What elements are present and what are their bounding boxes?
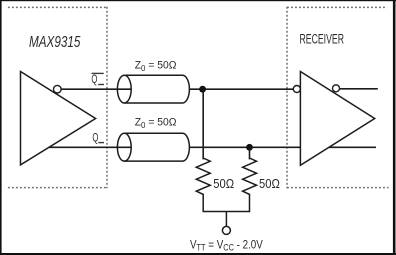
label Qbar (top output) bbox=[91, 72, 104, 86]
svg-text:50Ω: 50Ω bbox=[259, 177, 280, 191]
transmission line T2 (coax cylinder, bottom) bbox=[117, 133, 189, 161]
RECEIVER dashed box (open on right side) bbox=[287, 7, 389, 188]
svg-text:50Ω: 50Ω bbox=[213, 177, 234, 191]
border frame bottom bbox=[0, 253, 396, 255]
resistor R1 (zigzag) bbox=[196, 158, 210, 212]
svg-text:Z0 = 50Ω: Z0 = 50Ω bbox=[135, 60, 177, 73]
svg-text:Q: Q bbox=[92, 130, 98, 144]
border frame right bbox=[393, 0, 396, 255]
inversion bubble at receiver internal output bbox=[333, 85, 340, 92]
inversion bubble on driver Qbar output bbox=[54, 85, 62, 93]
wire receiver bottom output bbox=[329, 146, 376, 148]
junction node on line1 bbox=[199, 86, 206, 93]
wire line2 from T2 to receiver bbox=[189, 146, 300, 148]
wire stub down to VTT terminal bbox=[225, 212, 227, 227]
border frame top bbox=[0, 0, 396, 1]
buffer U1 driver triangle bbox=[21, 72, 96, 165]
svg-text:MAX9315: MAX9315 bbox=[29, 34, 81, 51]
label Q (bottom output) bbox=[92, 130, 104, 144]
resistor R2 (zigzag) bbox=[243, 158, 257, 212]
wire Q from driver to transmission line 2 bbox=[49, 146, 131, 148]
svg-text:Z0 = 50Ω: Z0 = 50Ω bbox=[135, 117, 177, 130]
inversion bubble at receiver input bbox=[293, 86, 300, 93]
wire vertical from line2 junction down to R2 bbox=[249, 147, 251, 159]
VTT terminal (open circle) bbox=[222, 226, 230, 234]
junction node on line2 bbox=[246, 144, 253, 151]
svg-text:Q: Q bbox=[91, 72, 97, 86]
transmission line T1 (coax cylinder, top) bbox=[117, 75, 189, 103]
MAX9315 dashed box (open on left side) bbox=[8, 7, 108, 188]
svg-text:RECEIVER: RECEIVER bbox=[300, 31, 345, 46]
wire receiver top output bbox=[340, 88, 378, 90]
wire vertical from line1 junction down to R1 bbox=[202, 89, 204, 159]
border frame left bbox=[0, 0, 2, 255]
receiver buffer U2 triangle bbox=[300, 72, 374, 166]
wire line1 from T1 to receiver bbox=[189, 88, 293, 90]
wire joining R1 and R2 bottoms bbox=[203, 211, 251, 213]
wire Qbar from bubble to transmission line 1 bbox=[61, 88, 131, 90]
